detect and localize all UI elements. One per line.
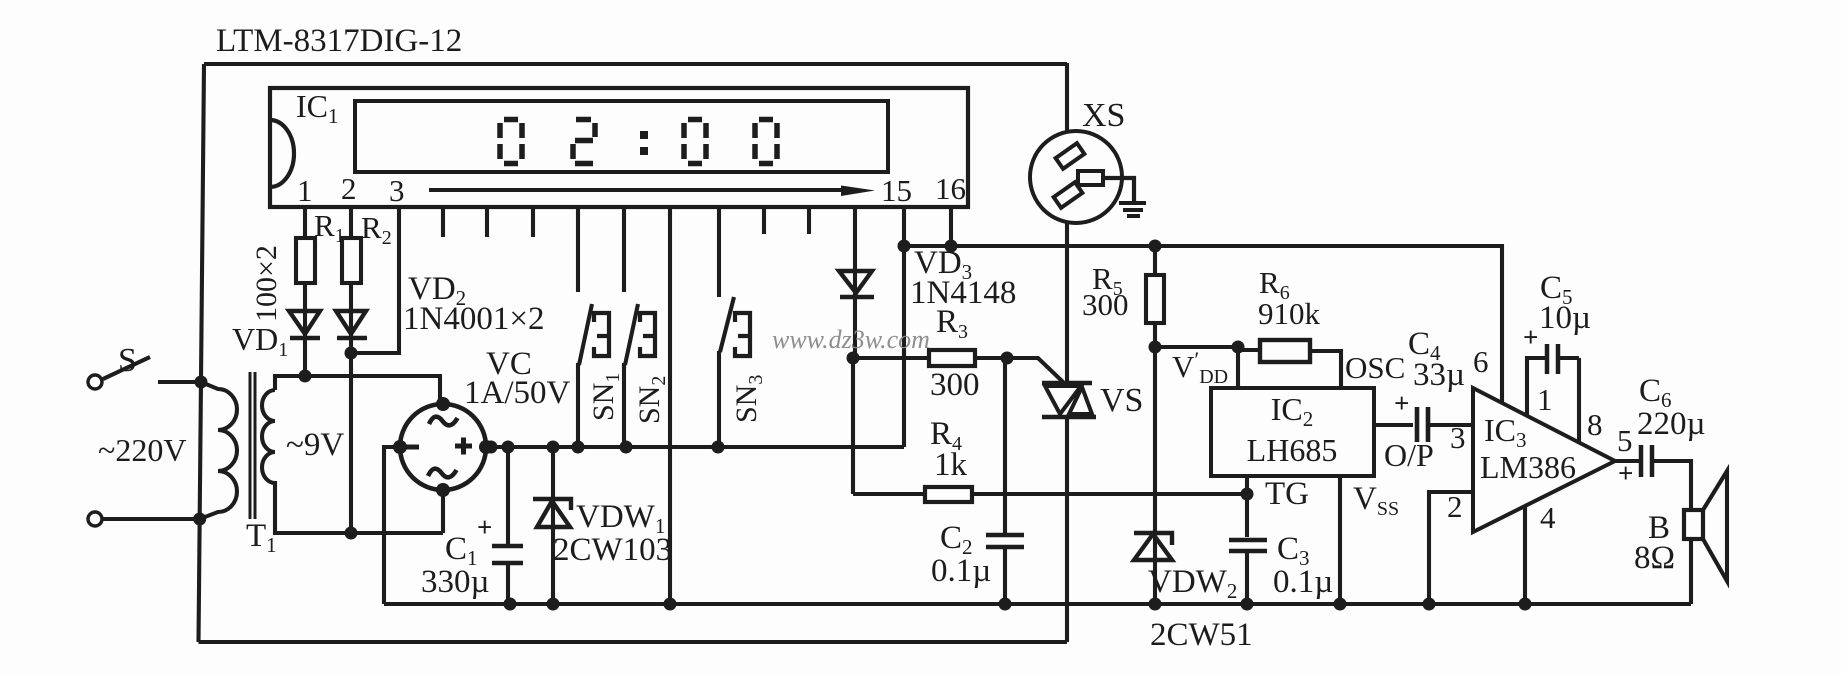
svg-text:LM386: LM386 xyxy=(1480,449,1576,485)
svg-text:220µ: 220µ xyxy=(1637,406,1706,442)
svg-text:+: + xyxy=(1523,322,1538,352)
svg-text:2CW103: 2CW103 xyxy=(553,532,672,568)
svg-text:1k: 1k xyxy=(934,447,968,483)
svg-text:4: 4 xyxy=(1540,500,1556,535)
svg-text:8Ω: 8Ω xyxy=(1634,540,1675,576)
svg-text:300: 300 xyxy=(930,367,980,403)
svg-text:1: 1 xyxy=(1537,382,1553,417)
svg-text:~220V: ~220V xyxy=(98,432,186,468)
svg-text:O/P: O/P xyxy=(1384,437,1434,473)
svg-text:330µ: 330µ xyxy=(421,564,490,600)
svg-text:3: 3 xyxy=(1450,420,1466,455)
svg-text:XS: XS xyxy=(1082,97,1125,134)
svg-text:1N4148: 1N4148 xyxy=(910,275,1016,311)
svg-text:300: 300 xyxy=(1082,287,1129,322)
svg-text:+: + xyxy=(1394,388,1409,418)
svg-text:0.1µ: 0.1µ xyxy=(931,553,991,589)
svg-text:VS: VS xyxy=(1100,382,1143,419)
svg-text:2: 2 xyxy=(1447,489,1463,524)
svg-text:S: S xyxy=(118,342,137,379)
svg-text:15: 15 xyxy=(881,173,912,208)
svg-text:2: 2 xyxy=(341,171,357,206)
svg-text:OSC: OSC xyxy=(1345,350,1405,385)
svg-text:1N4001×2: 1N4001×2 xyxy=(403,301,544,337)
svg-text:16: 16 xyxy=(935,171,966,206)
svg-text:6: 6 xyxy=(1473,344,1489,379)
svg-text:10µ: 10µ xyxy=(1539,300,1591,336)
svg-text:910k: 910k xyxy=(1258,296,1321,331)
svg-text:LH685: LH685 xyxy=(1247,432,1338,468)
svg-text:33µ: 33µ xyxy=(1413,357,1465,393)
svg-text:LTM-8317DIG-12: LTM-8317DIG-12 xyxy=(216,23,462,59)
svg-text:~9V: ~9V xyxy=(286,427,344,463)
svg-text:3: 3 xyxy=(389,173,405,208)
svg-text:8: 8 xyxy=(1587,407,1603,442)
svg-text:+: + xyxy=(477,512,492,542)
svg-text:TG: TG xyxy=(1265,476,1309,512)
svg-text:1: 1 xyxy=(297,173,313,208)
svg-text:5: 5 xyxy=(1617,423,1633,458)
svg-text:VDW2: VDW2 xyxy=(1148,564,1237,603)
svg-text:2CW51: 2CW51 xyxy=(1150,617,1253,653)
svg-text:0.1µ: 0.1µ xyxy=(1273,564,1333,600)
svg-text:100×2: 100×2 xyxy=(250,245,283,322)
svg-text:1A/50V: 1A/50V xyxy=(464,375,571,411)
svg-text:+: + xyxy=(1618,458,1633,488)
svg-text:www.dz3w.com: www.dz3w.com xyxy=(772,325,930,354)
